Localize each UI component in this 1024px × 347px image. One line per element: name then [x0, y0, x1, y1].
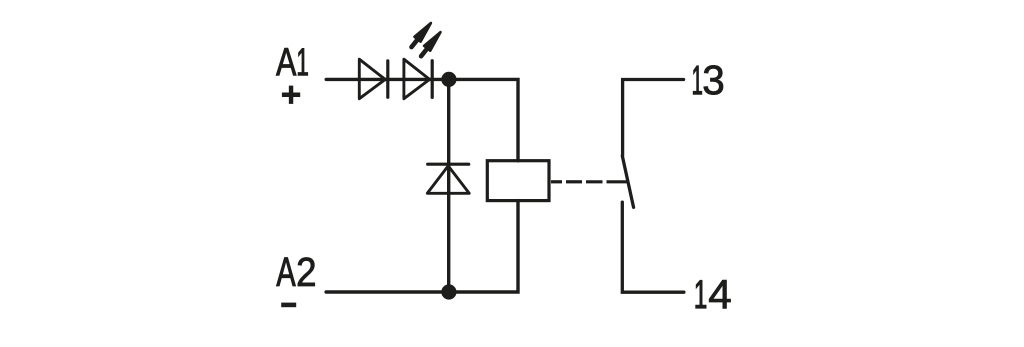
relay coil K1 [487, 161, 549, 201]
diode V1 (series diode) [359, 59, 388, 98]
wire: terminal 13 lead [623, 80, 684, 156]
LED emission arrow 2 [421, 32, 440, 56]
terminal label 14 [696, 280, 731, 308]
polarity plus sign [282, 86, 300, 104]
terminal label 13 [693, 65, 723, 94]
wire: terminal 14 lead [622, 202, 684, 292]
polarity minus sign [281, 303, 296, 308]
freewheeling diode V3 [427, 164, 469, 193]
terminal label A2 [276, 258, 314, 286]
junction node bottom (A2 rail / branch) [441, 284, 456, 299]
wire: A1 rail from terminal to coil top lead corner [326, 79, 518, 160]
wire: A2 rail from terminal to coil bottom lead corner [326, 201, 518, 292]
LED V2 (light emitting diode) [404, 59, 432, 98]
dashed actuation link coil to contact [551, 180, 628, 183]
terminal label A1 [276, 48, 308, 75]
junction node top (A1 rail / branch) [441, 72, 456, 87]
wire: vertical branch through freewheeling diode [447, 79, 450, 292]
LED emission arrow 1 [412, 23, 431, 47]
NO contact blade [622, 156, 633, 208]
